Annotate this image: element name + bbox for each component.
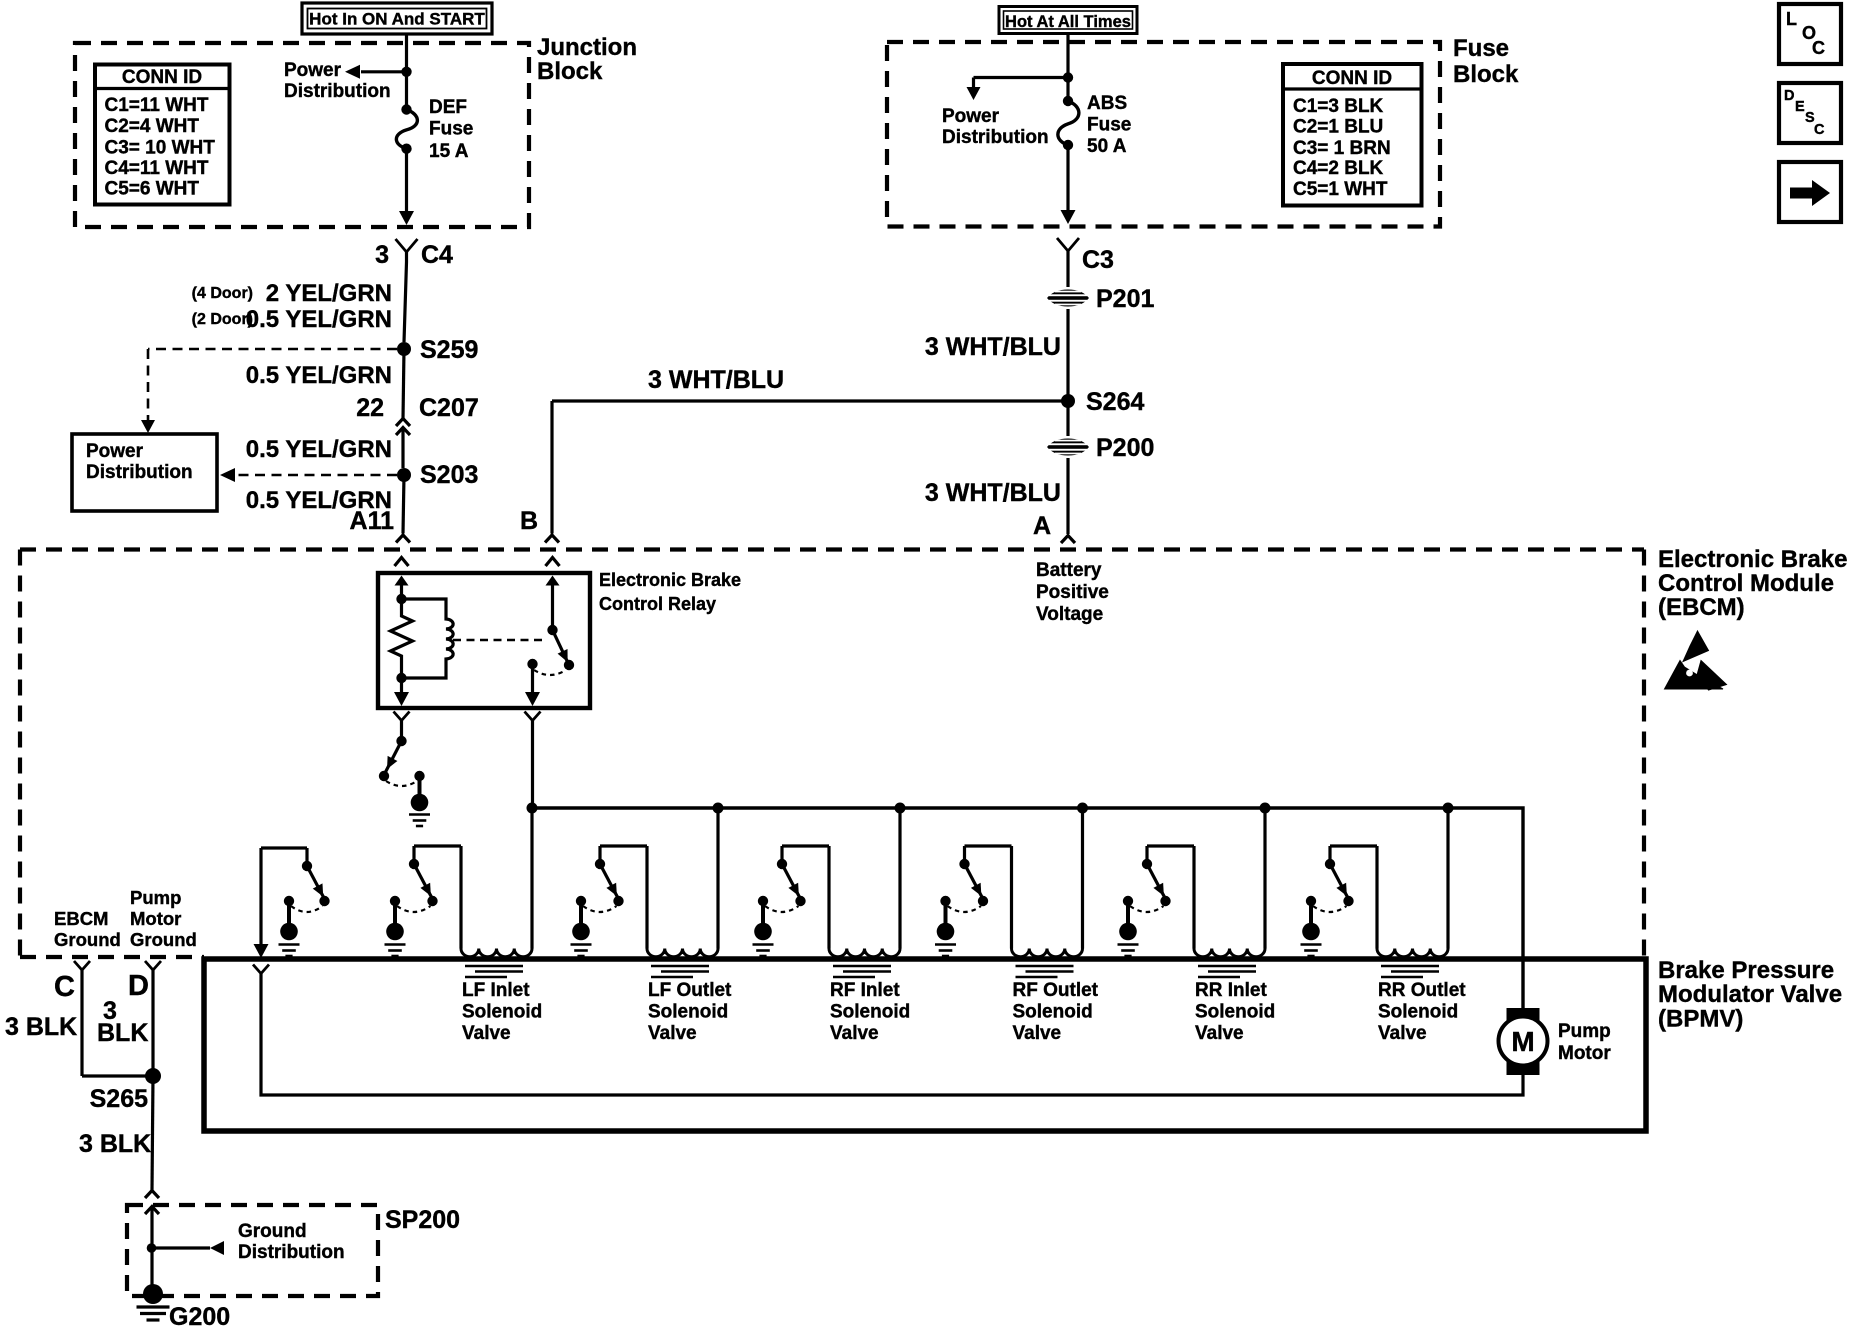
wire: pin A11 to relay (inside EBCM) (395, 558, 409, 567)
wire: pin B to relay (inside EBCM) (546, 558, 560, 567)
svg-text:(EBCM): (EBCM) (1658, 594, 1745, 621)
svg-text:3 WHT/BLU: 3 WHT/BLU (925, 479, 1061, 507)
svg-text:2 YEL/GRN: 2 YEL/GRN (266, 280, 392, 307)
rr inlet solenoid coil (EBCM driver output) (1194, 949, 1265, 957)
svg-text:(4 Door): (4 Door) (192, 285, 253, 302)
lf inlet solenoid coil (EBCM driver output) (461, 949, 532, 957)
svg-text:C: C (1814, 122, 1825, 138)
svg-text:Junction: Junction (537, 34, 637, 61)
power distribution off-page arrow (junction block) (361, 70, 407, 73)
splice S264 (1061, 394, 1075, 408)
svg-text:Voltage: Voltage (1036, 604, 1103, 625)
svg-text:P201: P201 (1096, 285, 1154, 313)
wire: fuse to connector C3 (1066, 145, 1069, 211)
pass-through P201 (1047, 290, 1089, 307)
svg-text:3 WHT/BLU: 3 WHT/BLU (648, 366, 784, 394)
svg-text:Valve: Valve (830, 1023, 879, 1044)
lf inlet solenoid driver switch (EBCM) (527, 803, 538, 814)
wire: S265 to SP200 (152, 1076, 153, 1190)
junction block dashed box (75, 43, 529, 227)
svg-text:RR Outlet: RR Outlet (1378, 980, 1466, 1001)
svg-text:RF Outlet: RF Outlet (1013, 980, 1099, 1001)
svg-text:SP200: SP200 (385, 1206, 460, 1234)
svg-text:Brake Pressure: Brake Pressure (1658, 957, 1834, 984)
solenoid relay driver switch (400, 721, 403, 737)
svg-text:Solenoid: Solenoid (830, 1002, 910, 1023)
fuse DEF 15 A (401, 104, 411, 114)
svg-text:Distribution: Distribution (86, 462, 193, 483)
svg-text:Control Relay: Control Relay (599, 594, 716, 614)
svg-text:Ground: Ground (130, 929, 197, 950)
svg-text:Valve: Valve (648, 1023, 697, 1044)
rf outlet solenoid valve symbol (BPMV) (1016, 965, 1074, 968)
svg-text:LF Outlet: LF Outlet (648, 980, 732, 1001)
relay control dashed link (453, 639, 544, 641)
svg-text:ABS: ABS (1087, 93, 1127, 114)
SP200 dashed box (127, 1205, 378, 1296)
svg-text:3 BLK: 3 BLK (79, 1130, 151, 1158)
svg-text:Distribution: Distribution (284, 81, 391, 102)
svg-text:0.5 YEL/GRN: 0.5 YEL/GRN (246, 306, 392, 333)
splice S203 (397, 468, 411, 482)
connector C3 (1057, 238, 1079, 251)
ground distribution off-page arrow (147, 1243, 157, 1253)
pump motor driver unit (EBCM) (259, 848, 262, 944)
svg-text:C4=2 BLK: C4=2 BLK (1293, 158, 1384, 179)
wire: hot feed into junction block (405, 34, 408, 110)
rr inlet solenoid valve symbol (BPMV) (1198, 965, 1256, 968)
svg-text:C2=4 WHT: C2=4 WHT (105, 116, 200, 137)
svg-text:LF Inlet: LF Inlet (462, 980, 530, 1001)
rr outlet solenoid driver switch (EBCM) (1443, 803, 1454, 814)
relay switch input pin (551, 585, 554, 630)
wire: hot feed into fuse block (1066, 34, 1069, 102)
splice S259 (397, 342, 411, 356)
rf outlet solenoid coil (EBCM driver output) (1012, 949, 1083, 957)
svg-text:A: A (1033, 512, 1051, 540)
svg-text:50 A: 50 A (1087, 136, 1127, 157)
relay coil input pin (400, 585, 403, 599)
relay resistor (391, 599, 413, 678)
svg-text:22: 22 (356, 394, 384, 422)
svg-text:Hot In ON And START: Hot In ON And START (309, 10, 485, 29)
svg-text:Fuse: Fuse (1087, 115, 1131, 136)
svg-text:(BPMV): (BPMV) (1658, 1006, 1743, 1033)
svg-text:C2=1 BLU: C2=1 BLU (1293, 117, 1383, 138)
svg-text:Power: Power (86, 441, 144, 462)
svg-text:DEF: DEF (429, 97, 467, 118)
EBCM dashed border (20, 547, 1644, 551)
svg-text:S203: S203 (420, 461, 478, 489)
dashed branch: S259 to power distribution (148, 348, 397, 351)
lf outlet solenoid valve symbol (BPMV) (651, 965, 709, 968)
svg-text:3 BLK: 3 BLK (5, 1013, 77, 1041)
rf inlet solenoid coil (EBCM driver output) (829, 949, 900, 957)
svg-text:E: E (1795, 99, 1805, 115)
svg-text:C5=6 WHT: C5=6 WHT (105, 179, 200, 200)
svg-text:Control Module: Control Module (1658, 570, 1834, 597)
svg-text:P200: P200 (1096, 434, 1154, 462)
relay switch blade (553, 630, 570, 665)
label box: Hot In ON And START (302, 3, 492, 34)
wire branch: S264 to pin B (3 WHT/BLU) (552, 399, 1068, 402)
svg-text:Solenoid: Solenoid (648, 1002, 728, 1023)
pump motor circuit inside BPMV (253, 965, 269, 974)
svg-text:C1=3 BLK: C1=3 BLK (1293, 96, 1384, 117)
svg-text:C3= 1 BRN: C3= 1 BRN (1293, 138, 1391, 159)
svg-text:Solenoid: Solenoid (1195, 1002, 1275, 1023)
svg-text:EBCM: EBCM (54, 908, 108, 929)
svg-text:Motor: Motor (130, 908, 181, 929)
svg-text:C: C (54, 971, 75, 1003)
nav box DESC (1779, 83, 1841, 143)
lf inlet solenoid valve symbol (BPMV) (465, 965, 523, 968)
svg-text:D: D (1784, 88, 1794, 104)
svg-text:C1=11 WHT: C1=11 WHT (105, 95, 209, 116)
svg-text:M: M (1511, 1026, 1534, 1057)
fuse ABS 50 A (1063, 96, 1073, 106)
svg-text:Distribution: Distribution (238, 1242, 345, 1263)
svg-text:Distribution: Distribution (942, 127, 1049, 148)
wire: relay output to solenoid feed bus (531, 721, 534, 809)
dashed branch: S203 to power distribution box (233, 474, 397, 477)
svg-text:C: C (1812, 38, 1825, 58)
BPMV box (204, 959, 1646, 1131)
svg-text:S265: S265 (90, 1085, 148, 1113)
svg-text:Power: Power (942, 106, 1000, 127)
relay output connectors below box (394, 712, 410, 721)
connector C207 (396, 419, 410, 427)
svg-text:Solenoid: Solenoid (462, 1002, 542, 1023)
svg-text:Modulator Valve: Modulator Valve (1658, 981, 1842, 1008)
label box: Hot At All Times (999, 7, 1137, 34)
svg-text:D: D (128, 970, 149, 1002)
wire: pin D to S265 (151, 970, 154, 1076)
nav box LOC (1779, 4, 1841, 64)
svg-text:Electronic Brake: Electronic Brake (1658, 546, 1847, 573)
pump motor (1507, 1008, 1540, 1022)
rr outlet solenoid coil (EBCM driver output) (1377, 949, 1448, 957)
svg-text:BLK: BLK (97, 1019, 148, 1047)
svg-text:CONN ID: CONN ID (1312, 68, 1392, 89)
svg-text:Valve: Valve (1013, 1023, 1062, 1044)
svg-text:S264: S264 (1086, 388, 1144, 416)
lf outlet solenoid coil (EBCM driver output) (647, 949, 718, 957)
svg-text:Fuse: Fuse (1453, 35, 1509, 62)
wire: C4 to S259 (404, 262, 407, 342)
svg-text:Solenoid: Solenoid (1378, 1002, 1458, 1023)
svg-text:Solenoid: Solenoid (1013, 1002, 1093, 1023)
svg-text:Block: Block (1453, 61, 1519, 88)
svg-text:A11: A11 (350, 507, 395, 535)
wire: S203 to pin A11 (403, 475, 404, 534)
fuse block dashed box (887, 42, 1440, 227)
rf outlet solenoid driver switch (EBCM) (1077, 803, 1088, 814)
splice SP200 internal wire (145, 1207, 159, 1215)
electronic brake control relay box (378, 573, 590, 708)
svg-text:3: 3 (375, 241, 389, 269)
svg-text:Pump: Pump (1558, 1021, 1611, 1042)
svg-text:C3: C3 (1082, 246, 1114, 274)
connector C4 (396, 239, 418, 252)
svg-text:Valve: Valve (1195, 1023, 1244, 1044)
driver switch actuator + ground (414, 771, 424, 781)
svg-text:Pump: Pump (130, 887, 181, 908)
power distribution off-page arrow (fuse block) (1063, 72, 1073, 82)
nav box arrow (1779, 162, 1841, 222)
CONN ID table (fuse block) (1283, 64, 1422, 206)
svg-text:Valve: Valve (462, 1023, 511, 1044)
svg-text:RR Inlet: RR Inlet (1195, 980, 1267, 1001)
power distribution box (72, 434, 217, 511)
svg-text:C5=1 WHT: C5=1 WHT (1293, 179, 1388, 200)
svg-text:RF Inlet: RF Inlet (830, 980, 900, 1001)
svg-text:L: L (1786, 9, 1797, 29)
svg-text:C4=11 WHT: C4=11 WHT (105, 158, 209, 179)
CONN ID table (junction block) (95, 65, 230, 205)
svg-text:3 WHT/BLU: 3 WHT/BLU (925, 333, 1061, 361)
relay coil (402, 599, 454, 678)
svg-text:G200: G200 (169, 1303, 230, 1331)
svg-text:C207: C207 (419, 394, 479, 422)
svg-text:Hot At All Times: Hot At All Times (1005, 13, 1131, 31)
svg-text:15 A: 15 A (429, 141, 469, 162)
relay switch pole (527, 659, 537, 669)
svg-text:C3= 10 WHT: C3= 10 WHT (105, 138, 216, 159)
rf inlet solenoid valve symbol (BPMV) (833, 965, 891, 968)
svg-text:C4: C4 (421, 241, 453, 269)
svg-text:Ground: Ground (238, 1221, 307, 1242)
svg-text:Power: Power (284, 60, 342, 81)
svg-text:(2 Door): (2 Door) (192, 311, 253, 328)
wire: P200 to pin A (1066, 458, 1069, 534)
wire: P201 to S264 (1066, 309, 1069, 401)
rf inlet solenoid driver switch (EBCM) (895, 803, 906, 814)
svg-text:Positive: Positive (1036, 582, 1109, 603)
svg-text:Fuse: Fuse (429, 119, 473, 140)
svg-text:Battery: Battery (1036, 560, 1102, 581)
svg-text:Motor: Motor (1558, 1043, 1611, 1064)
svg-text:S259: S259 (420, 336, 478, 364)
rr inlet solenoid driver switch (EBCM) (1260, 803, 1271, 814)
wire: pin C to S265 (80, 970, 83, 1076)
solenoid feed bus (533, 808, 1524, 1008)
svg-text:Valve: Valve (1378, 1023, 1427, 1044)
pass-through P200 (1066, 401, 1069, 436)
relay coil output to box edge (400, 678, 403, 694)
wire: fuse to connector C4 (405, 149, 408, 212)
svg-text:0.5 YEL/GRN: 0.5 YEL/GRN (246, 436, 392, 463)
svg-text:0.5 YEL/GRN: 0.5 YEL/GRN (246, 362, 392, 389)
svg-text:B: B (520, 507, 538, 535)
ESD sensitivity symbol (1683, 631, 1709, 662)
svg-text:CONN ID: CONN ID (122, 67, 202, 88)
lf outlet solenoid driver switch (EBCM) (713, 803, 724, 814)
svg-text:Ground: Ground (54, 929, 121, 950)
svg-text:Electronic Brake: Electronic Brake (599, 570, 741, 590)
splice S265 (145, 1068, 161, 1084)
rr outlet solenoid valve symbol (BPMV) (1381, 965, 1439, 968)
ground G200 (143, 1284, 163, 1304)
svg-text:Block: Block (537, 58, 603, 85)
wire: S259 to C207 (403, 349, 404, 419)
